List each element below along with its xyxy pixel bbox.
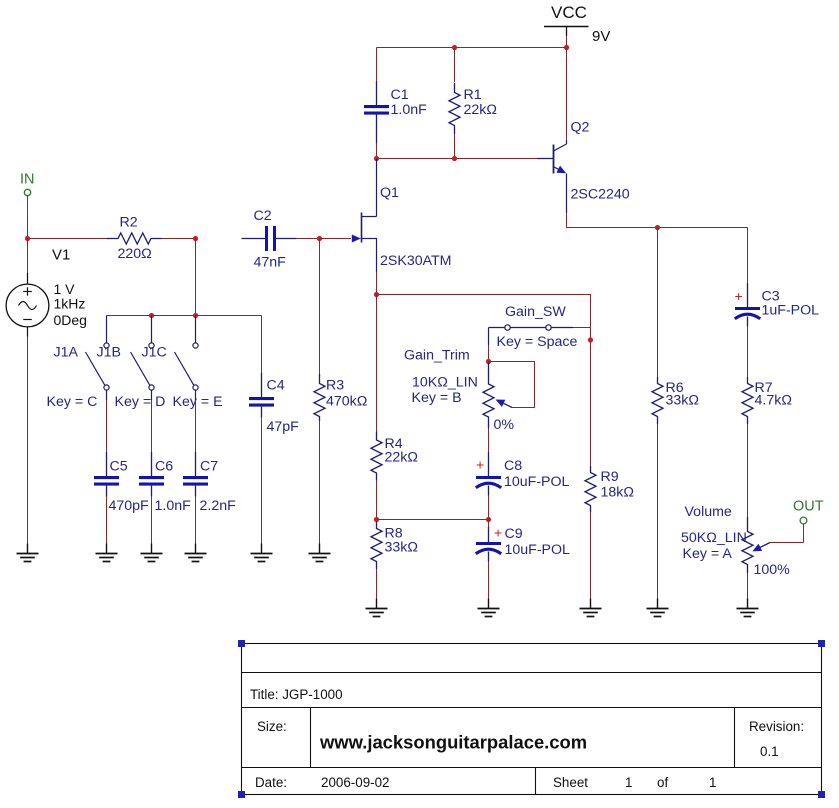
wiper arrow Volume bbox=[752, 543, 770, 552]
source V1 1V 1kHz 0Deg bbox=[6, 247, 87, 337]
svg-text:9V: 9V bbox=[592, 28, 610, 45]
svg-text:C8: C8 bbox=[504, 458, 522, 474]
svg-text:C9: C9 bbox=[505, 526, 523, 542]
svg-text:2SK30ATM: 2SK30ATM bbox=[380, 253, 452, 269]
svg-text:10KΩ_LIN: 10KΩ_LIN bbox=[412, 375, 478, 391]
svg-text:22kΩ: 22kΩ bbox=[385, 450, 418, 466]
wire switch feed row bbox=[107, 315, 262, 317]
wire R4 to node bbox=[376, 481, 378, 520]
ground R3 bbox=[319, 544, 321, 554]
svg-text:+: + bbox=[735, 288, 743, 304]
svg-text:R3: R3 bbox=[326, 378, 344, 394]
capacitor C8 10uF-POL bbox=[476, 452, 570, 496]
svg-text:47pF: 47pF bbox=[267, 419, 300, 435]
svg-text:C6: C6 bbox=[155, 459, 173, 475]
wire node down to V1 bbox=[27, 239, 29, 274]
ground C4 bbox=[261, 544, 263, 554]
switch J1C bbox=[142, 316, 223, 411]
svg-text:0Deg: 0Deg bbox=[54, 312, 87, 328]
svg-text:Key = Space: Key = Space bbox=[497, 334, 578, 350]
wire J1B to C6 bbox=[151, 400, 153, 452]
node input/V1 bbox=[25, 236, 30, 241]
svg-text:C2: C2 bbox=[254, 208, 272, 224]
svg-text:Q1: Q1 bbox=[380, 185, 399, 201]
svg-text:220Ω: 220Ω bbox=[118, 246, 152, 262]
svg-text:10uF-POL: 10uF-POL bbox=[504, 474, 570, 490]
svg-text:0.1: 0.1 bbox=[760, 744, 779, 759]
node R4/R8/C8 row bbox=[374, 517, 379, 522]
wire Q1 source row to R9 column bbox=[377, 295, 591, 467]
terminal IN bbox=[20, 172, 35, 220]
svg-text:C5: C5 bbox=[110, 459, 128, 475]
wire Gain_SW left down to pot top bbox=[488, 328, 490, 346]
svg-text:1: 1 bbox=[625, 775, 632, 790]
wire Volume bottom to ground bbox=[747, 573, 749, 599]
capacitor C9 10uF-POL bbox=[476, 520, 570, 562]
svg-text:Q2: Q2 bbox=[571, 120, 590, 136]
svg-text:Sheet: Sheet bbox=[553, 775, 588, 790]
capacitor C6 1.0nF bbox=[139, 452, 191, 514]
wire input row to R2 bbox=[28, 238, 107, 240]
svg-text:Key = A: Key = A bbox=[683, 546, 733, 562]
svg-text:Revision:: Revision: bbox=[749, 719, 804, 734]
ground V1 bbox=[27, 544, 29, 554]
ground R6 bbox=[657, 599, 659, 609]
svg-text:of: of bbox=[657, 775, 668, 790]
wire R1 bottom to rail bbox=[454, 134, 456, 159]
svg-text:1kHz: 1kHz bbox=[54, 296, 86, 312]
svg-text:4.7kΩ: 4.7kΩ bbox=[755, 393, 792, 409]
wire IN to input row bbox=[27, 219, 29, 239]
svg-text:IN: IN bbox=[20, 172, 35, 188]
svg-text:50KΩ_LIN: 50KΩ_LIN bbox=[681, 530, 747, 546]
resistor R8 33k bbox=[371, 521, 418, 569]
wire VCC stem to top rail bbox=[566, 36, 568, 48]
svg-text:C1: C1 bbox=[391, 87, 409, 103]
node Q1 source bbox=[374, 292, 379, 297]
capacitor C2 47nF bbox=[242, 208, 297, 271]
node rail / C1 / Q1 drain bbox=[374, 156, 379, 161]
capacitor C1 1.0nF bbox=[364, 81, 427, 144]
wire Gain_Trim bottom to C8 bbox=[488, 429, 490, 453]
node R2/C2/switch-row bbox=[193, 236, 198, 241]
switch J1B bbox=[97, 316, 166, 411]
capacitor C3 1uF-POL bbox=[735, 283, 820, 327]
svg-text:Key = E: Key = E bbox=[173, 394, 223, 410]
terminal OUT bbox=[793, 499, 824, 543]
wire R3 to ground bbox=[319, 421, 321, 544]
node C8/C9 bbox=[486, 517, 491, 522]
wire C8 to node bbox=[488, 496, 490, 520]
wire R1 top lead bbox=[454, 48, 456, 83]
resistor R7 4.7k bbox=[742, 377, 792, 424]
resistor R9 18k bbox=[585, 466, 634, 512]
node row/J1C bbox=[193, 313, 198, 318]
svg-text:100%: 100% bbox=[754, 562, 791, 578]
svg-text:+: + bbox=[476, 457, 484, 473]
transistor Q2 2SC2240 bbox=[537, 120, 630, 214]
wire C6 to ground bbox=[151, 496, 153, 544]
svg-text:Gain_SW: Gain_SW bbox=[505, 304, 566, 320]
wire C3 to R7 bbox=[747, 327, 749, 378]
svg-text:470kΩ: 470kΩ bbox=[326, 394, 367, 410]
svg-text:33kΩ: 33kΩ bbox=[385, 540, 418, 556]
wire C2 to R3 node bbox=[297, 238, 320, 240]
title block frame bbox=[242, 644, 822, 795]
power symbol VCC 9V bbox=[544, 3, 610, 45]
ground C5 bbox=[106, 544, 108, 554]
wire Gain_SW right to R9 column bbox=[573, 327, 591, 329]
svg-text:Key = B: Key = B bbox=[412, 390, 462, 406]
wiper arrow Gain_Trim bbox=[496, 400, 513, 408]
svg-text:www.jacksonguitarpalace.com: www.jacksonguitarpalace.com bbox=[319, 732, 587, 753]
svg-text:Key = D: Key = D bbox=[115, 394, 166, 410]
wire Gain_Trim wiper loop bbox=[489, 362, 535, 408]
svg-text:R1: R1 bbox=[464, 87, 482, 103]
wire emitter node down to R6 bbox=[657, 228, 659, 378]
svg-text:Date:: Date: bbox=[255, 775, 287, 790]
wire source node down to R4 bbox=[376, 295, 378, 433]
wire OUT to Volume wiper bbox=[770, 542, 804, 544]
capacitor C7 2.2nF bbox=[183, 452, 236, 514]
capacitor C5 470pF bbox=[94, 452, 149, 514]
svg-text:1.0nF: 1.0nF bbox=[391, 102, 428, 118]
title block corner handles bbox=[238, 640, 825, 798]
capacitor C4 47pF bbox=[249, 373, 299, 435]
wire C7 to ground bbox=[195, 496, 197, 544]
svg-text:1: 1 bbox=[709, 775, 716, 790]
wire C1 bottom to rail bbox=[376, 143, 378, 159]
wire node down to switch row bbox=[195, 239, 197, 316]
resistor R4 22k bbox=[371, 432, 418, 481]
ground R9 bbox=[590, 599, 592, 609]
wire J1C to C7 bbox=[195, 400, 197, 452]
node R9 column / Gain_SW bbox=[588, 337, 593, 342]
wire Q1 source down bbox=[376, 272, 378, 295]
svg-text:47nF: 47nF bbox=[254, 255, 287, 271]
node emitter wire / R6 bbox=[655, 225, 660, 230]
node C2/R3 bbox=[317, 236, 322, 241]
node row/J1B bbox=[149, 313, 154, 318]
resistor R3 470k bbox=[314, 374, 367, 421]
wire R9 to ground bbox=[590, 512, 592, 599]
wire R2 to node bbox=[162, 238, 196, 240]
svg-text:Title: JGP-1000: Title: JGP-1000 bbox=[250, 687, 343, 702]
svg-text:Gain_Trim: Gain_Trim bbox=[404, 348, 470, 364]
node rail / R1 bbox=[452, 156, 457, 161]
svg-text:Volume: Volume bbox=[685, 504, 732, 520]
wire C1 top lead bbox=[376, 48, 378, 82]
svg-text:+: + bbox=[494, 525, 502, 541]
svg-text:J1C: J1C bbox=[142, 345, 167, 361]
svg-text:R9: R9 bbox=[601, 469, 619, 485]
svg-text:Key = C: Key = C bbox=[47, 394, 98, 410]
wire C4 to ground bbox=[261, 417, 263, 544]
wire C5 to ground bbox=[106, 496, 108, 544]
svg-text:0%: 0% bbox=[494, 417, 515, 433]
wire R4-C8 row bbox=[377, 519, 489, 521]
svg-text:2.2nF: 2.2nF bbox=[200, 498, 237, 514]
ground R8 bbox=[376, 599, 378, 609]
wire C9 to ground bbox=[488, 562, 490, 599]
ground C7 bbox=[195, 544, 197, 554]
svg-text:V1: V1 bbox=[52, 247, 70, 264]
potentiometer Gain_Trim 10K 0% bbox=[404, 348, 514, 434]
resistor R1 22k bbox=[449, 83, 497, 134]
svg-text:OUT: OUT bbox=[793, 499, 824, 515]
resistor R2 220 bbox=[107, 215, 162, 263]
svg-text:470pF: 470pF bbox=[109, 498, 150, 514]
svg-text:Size:: Size: bbox=[257, 719, 287, 734]
wire bottom rail to Q2 base bbox=[377, 158, 538, 160]
wire Q2 emitter down and right bbox=[567, 213, 748, 228]
wire Q1 drain up to rail bbox=[376, 159, 378, 217]
potentiometer Volume 50K 100% bbox=[681, 504, 790, 578]
svg-text:J1B: J1B bbox=[97, 345, 121, 361]
svg-text:18kΩ: 18kΩ bbox=[601, 485, 634, 501]
wire emitter row down to C3 bbox=[747, 228, 749, 284]
switch J1A bbox=[47, 316, 110, 411]
node top rail / VCC bbox=[564, 45, 569, 50]
svg-text:J1A: J1A bbox=[54, 345, 79, 361]
wire R7 to Volume bbox=[747, 424, 749, 517]
ground C6 bbox=[151, 544, 153, 554]
wire J1A to C5 bbox=[106, 400, 108, 452]
svg-text:C4: C4 bbox=[267, 378, 285, 394]
ground C9 bbox=[488, 599, 490, 609]
svg-text:33kΩ: 33kΩ bbox=[666, 393, 699, 409]
switch Gain_SW bbox=[489, 304, 578, 350]
resistor R6 33k bbox=[652, 377, 699, 424]
wire R6 to ground bbox=[657, 424, 659, 599]
wire node to Q1 gate bbox=[320, 238, 352, 240]
wire V1 to ground bbox=[27, 337, 29, 544]
wire R8 to ground bbox=[376, 569, 378, 599]
svg-text:2SC2240: 2SC2240 bbox=[571, 187, 630, 203]
svg-text:2006-09-02: 2006-09-02 bbox=[321, 775, 390, 790]
wire VCC down to Q2 collector bbox=[566, 48, 568, 141]
node top rail / R1 bbox=[452, 45, 457, 50]
ground Volume bbox=[747, 599, 749, 609]
svg-text:10uF-POL: 10uF-POL bbox=[505, 542, 571, 558]
wire node down to R3 bbox=[319, 239, 321, 375]
wire switch row down to C4 bbox=[261, 316, 263, 374]
svg-text:1uF-POL: 1uF-POL bbox=[762, 303, 820, 319]
svg-text:C7: C7 bbox=[200, 459, 218, 475]
svg-text:VCC: VCC bbox=[551, 3, 587, 22]
svg-text:R2: R2 bbox=[120, 215, 138, 231]
node Gain_Trim top bbox=[486, 359, 491, 364]
transistor Q1 2SK30ATM bbox=[352, 185, 452, 272]
svg-text:22kΩ: 22kΩ bbox=[464, 102, 497, 118]
svg-text:1.0nF: 1.0nF bbox=[155, 498, 192, 514]
wire top rail bbox=[377, 47, 567, 49]
